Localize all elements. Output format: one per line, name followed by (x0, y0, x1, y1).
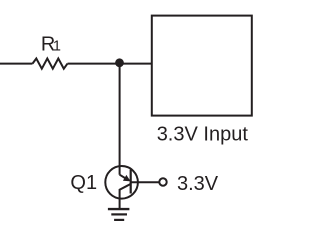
transistor Q1 base lead wire (131, 181, 160, 183)
wire junction to transistor (119, 64, 121, 175)
ground bar 1 (108, 208, 129, 210)
transistor Q1 circle (105, 166, 138, 199)
junction node dot (115, 58, 124, 67)
svg-text:Q1: Q1 (70, 172, 97, 194)
wire left segment (0, 63, 33, 65)
transistor Q1 base bar (130, 170, 132, 194)
box 3.3V Input (152, 16, 252, 116)
svg-text:3.3V Input: 3.3V Input (157, 124, 249, 146)
svg-text:3.3V: 3.3V (177, 173, 219, 195)
transistor Q1 emitter diagonal (120, 175, 128, 180)
wire from resistor to box (68, 63, 152, 65)
svg-text:R1: R1 (41, 34, 61, 56)
emitter arrowhead (123, 175, 131, 181)
terminal 3.3V open circle (159, 178, 166, 185)
ground bar 3 (114, 219, 124, 221)
resistor R1 (33, 59, 68, 69)
transistor Q1 collector diagonal and lead to ground (120, 184, 131, 209)
ground bar 2 (111, 213, 127, 215)
